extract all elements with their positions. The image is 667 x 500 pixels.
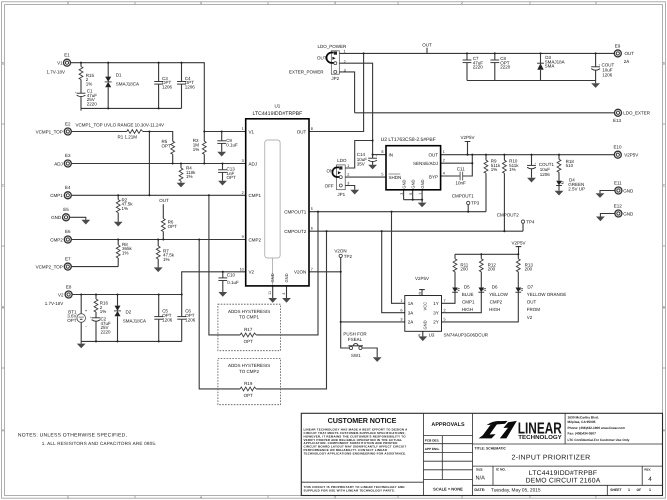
svg-text:2220: 2220 bbox=[101, 330, 112, 335]
svg-text:V2: V2 bbox=[527, 315, 533, 320]
svg-text:SW1: SW1 bbox=[351, 353, 361, 358]
svg-text:LTC4419IDD#TRPBF: LTC4419IDD#TRPBF bbox=[253, 111, 303, 117]
svg-text:C10: C10 bbox=[227, 272, 236, 277]
svg-text:LDO: LDO bbox=[337, 158, 347, 163]
svg-text:PUSH FOR: PUSH FOR bbox=[343, 331, 367, 336]
svg-text:8: 8 bbox=[419, 291, 421, 295]
svg-text:1%: 1% bbox=[86, 81, 93, 86]
svg-text:V2P5V: V2P5V bbox=[624, 152, 638, 157]
svg-text:4: 4 bbox=[200, 1, 202, 5]
svg-text:OPT: OPT bbox=[168, 224, 178, 229]
svg-text:200: 200 bbox=[525, 267, 533, 272]
svg-text:1.7V-18V: 1.7V-18V bbox=[47, 70, 66, 75]
svg-text:2A: 2A bbox=[624, 59, 630, 64]
svg-text:Milpitas, CA 95035: Milpitas, CA 95035 bbox=[568, 420, 596, 424]
svg-text:CMPOUT1: CMPOUT1 bbox=[452, 193, 474, 198]
svg-text:3: 3 bbox=[344, 69, 346, 73]
svg-text:TECHNOLOGY: TECHNOLOGY bbox=[518, 434, 562, 441]
svg-text:Phone: (408)432-1900 www.line: Phone: (408)432-1900 www.linear.com bbox=[568, 426, 626, 430]
svg-text:6: 6 bbox=[311, 227, 313, 231]
svg-text:11: 11 bbox=[268, 291, 272, 295]
svg-text:OUT: OUT bbox=[625, 51, 635, 56]
svg-text:2: 2 bbox=[347, 173, 349, 177]
svg-text:V1: V1 bbox=[57, 60, 63, 65]
svg-text:1: 1 bbox=[628, 488, 630, 492]
svg-text:OPT: OPT bbox=[162, 144, 172, 149]
svg-text:N/A: N/A bbox=[476, 475, 486, 482]
svg-text:E10: E10 bbox=[613, 144, 622, 149]
svg-text:5: 5 bbox=[381, 172, 383, 176]
svg-text:5: 5 bbox=[67, 1, 69, 5]
svg-text:Fax: (408)434-0507: Fax: (408)434-0507 bbox=[568, 431, 597, 435]
svg-text:OUT: OUT bbox=[429, 153, 439, 158]
svg-text:OUT: OUT bbox=[159, 198, 169, 203]
svg-text:0.1uF: 0.1uF bbox=[227, 280, 239, 285]
svg-text:2: 2 bbox=[344, 60, 346, 64]
svg-text:1: 1 bbox=[443, 150, 445, 154]
svg-text:3: 3 bbox=[242, 159, 244, 163]
svg-text:GND: GND bbox=[420, 179, 425, 188]
svg-text:CMP2: CMP2 bbox=[490, 299, 503, 304]
svg-text:IN: IN bbox=[389, 153, 394, 158]
svg-text:GND: GND bbox=[623, 211, 634, 216]
svg-text:TP3: TP3 bbox=[471, 201, 480, 206]
svg-text:CMP1: CMP1 bbox=[249, 193, 262, 198]
svg-text:5: 5 bbox=[444, 317, 446, 321]
svg-text:D7: D7 bbox=[527, 285, 533, 290]
svg-text:10nF: 10nF bbox=[456, 180, 467, 185]
svg-text:U2 LT1763CS8-2.5#PBF: U2 LT1763CS8-2.5#PBF bbox=[381, 137, 436, 143]
svg-text:3: 3 bbox=[347, 181, 349, 185]
svg-text:2A: 2A bbox=[408, 320, 414, 325]
svg-text:4: 4 bbox=[282, 293, 286, 295]
svg-text:2.5V UP: 2.5V UP bbox=[568, 187, 585, 192]
svg-text:+: + bbox=[598, 63, 600, 67]
svg-text:V2ON: V2ON bbox=[334, 249, 346, 254]
svg-text:V2P5V: V2P5V bbox=[460, 135, 474, 140]
svg-text:DEMO CIRCUIT 2160A: DEMO CIRCUIT 2160A bbox=[526, 477, 601, 484]
svg-text:7: 7 bbox=[419, 193, 423, 195]
svg-text:CMP2: CMP2 bbox=[50, 237, 63, 242]
svg-text:E8: E8 bbox=[66, 284, 72, 289]
svg-text:SENSE/ADJ: SENSE/ADJ bbox=[413, 161, 438, 166]
svg-text:3Y: 3Y bbox=[433, 311, 439, 316]
svg-text:TECHNOLOGY APPLICATIONS ENGINE: TECHNOLOGY APPLICATIONS ENGINEERING FOR … bbox=[304, 451, 407, 455]
svg-text:1.7V-18V: 1.7V-18V bbox=[45, 301, 64, 306]
svg-text:SIZE: SIZE bbox=[476, 468, 483, 472]
svg-text:+: + bbox=[534, 161, 536, 165]
svg-text:ADJ: ADJ bbox=[54, 161, 63, 166]
svg-text:CMP1: CMP1 bbox=[50, 193, 63, 198]
svg-text:1%: 1% bbox=[193, 147, 200, 152]
svg-text:2Y: 2Y bbox=[433, 320, 439, 325]
svg-text:4: 4 bbox=[443, 172, 445, 176]
svg-text:1%: 1% bbox=[163, 257, 170, 262]
svg-text:TITLE: SCHEMATIC: TITLE: SCHEMATIC bbox=[475, 446, 507, 450]
svg-text:+: + bbox=[75, 91, 77, 95]
svg-text:V2ON: V2ON bbox=[294, 270, 306, 275]
svg-text:35V: 35V bbox=[357, 162, 365, 167]
svg-text:2: 2 bbox=[461, 1, 463, 5]
svg-text:1: 1 bbox=[347, 164, 349, 168]
svg-text:SMAJ18CA: SMAJ18CA bbox=[123, 318, 146, 323]
svg-text:V1: V1 bbox=[249, 129, 255, 134]
svg-text:E12: E12 bbox=[614, 204, 623, 209]
svg-text:V2: V2 bbox=[249, 270, 255, 275]
svg-text:CUSTOMER NOTICE: CUSTOMER NOTICE bbox=[328, 416, 397, 425]
svg-text:+: + bbox=[376, 154, 378, 158]
svg-text:OUT: OUT bbox=[422, 42, 432, 47]
svg-text:OPT: OPT bbox=[244, 393, 254, 398]
svg-text:6: 6 bbox=[400, 308, 402, 312]
svg-text:E11: E11 bbox=[614, 180, 622, 185]
svg-text:SCALE = NONE: SCALE = NONE bbox=[433, 486, 463, 491]
svg-text:ON: ON bbox=[327, 168, 334, 173]
svg-text:4: 4 bbox=[418, 334, 422, 336]
svg-text:4: 4 bbox=[200, 495, 202, 499]
svg-text:3A: 3A bbox=[408, 311, 414, 316]
svg-text:CMPOUT2: CMPOUT2 bbox=[284, 229, 306, 234]
svg-text:OFF: OFF bbox=[325, 183, 334, 188]
svg-text:10: 10 bbox=[240, 267, 244, 271]
svg-text:2: 2 bbox=[242, 191, 244, 195]
svg-text:FROM: FROM bbox=[527, 307, 540, 312]
svg-text:200: 200 bbox=[460, 267, 468, 272]
svg-text:D5: D5 bbox=[464, 285, 470, 290]
svg-text:LDO_POWER: LDO_POWER bbox=[318, 44, 348, 49]
svg-text:SHEET: SHEET bbox=[610, 488, 622, 492]
svg-text:IC NO.: IC NO. bbox=[496, 468, 506, 472]
svg-text:OUT: OUT bbox=[297, 129, 307, 134]
svg-text:JP2: JP2 bbox=[331, 76, 339, 81]
svg-text:EXTER_POWER: EXTER_POWER bbox=[289, 69, 324, 74]
svg-text:APPROVALS: APPROVALS bbox=[431, 422, 465, 428]
svg-text:HIGH: HIGH bbox=[489, 307, 500, 312]
svg-text:E2: E2 bbox=[65, 121, 71, 126]
svg-text:8: 8 bbox=[381, 150, 383, 154]
svg-text:TO CMP2: TO CMP2 bbox=[239, 369, 259, 374]
svg-text:4: 4 bbox=[648, 476, 652, 483]
svg-text:CMP1: CMP1 bbox=[462, 299, 475, 304]
svg-text:3: 3 bbox=[334, 1, 336, 5]
svg-text:BLUE: BLUE bbox=[462, 292, 474, 297]
svg-text:8: 8 bbox=[311, 127, 313, 131]
svg-text:V2P5V: V2P5V bbox=[511, 240, 525, 245]
svg-text:E3: E3 bbox=[65, 153, 71, 158]
svg-text:Tuesday, May 05, 2015: Tuesday, May 05, 2015 bbox=[491, 488, 541, 494]
svg-text:HIGH: HIGH bbox=[462, 307, 473, 312]
svg-text:1: 1 bbox=[649, 488, 651, 492]
svg-text:1A: 1A bbox=[408, 301, 414, 306]
svg-text:1%: 1% bbox=[186, 174, 193, 179]
svg-text:OPT: OPT bbox=[244, 339, 254, 344]
svg-text:GND: GND bbox=[51, 215, 62, 220]
svg-text:PCB DES.: PCB DES. bbox=[425, 439, 440, 443]
svg-text:OPT: OPT bbox=[227, 175, 237, 180]
svg-text:1630 McCarthy Blvd.: 1630 McCarthy Blvd. bbox=[568, 415, 599, 419]
svg-text:1%: 1% bbox=[509, 167, 516, 172]
svg-text:V2P5V: V2P5V bbox=[415, 276, 429, 281]
svg-text:CMPOUT1: CMPOUT1 bbox=[284, 210, 306, 215]
svg-text:9: 9 bbox=[242, 235, 244, 239]
svg-text:U3: U3 bbox=[429, 332, 435, 337]
svg-text:D6: D6 bbox=[492, 285, 498, 290]
svg-text:1: 1 bbox=[400, 299, 402, 303]
svg-text:GND: GND bbox=[270, 273, 275, 282]
svg-text:GND: GND bbox=[411, 179, 416, 188]
svg-text:R17: R17 bbox=[244, 327, 253, 332]
svg-text:3: 3 bbox=[400, 317, 402, 321]
svg-text:7: 7 bbox=[444, 299, 446, 303]
svg-text:2220: 2220 bbox=[500, 65, 511, 70]
svg-text:D2: D2 bbox=[126, 309, 132, 314]
svg-text:1. ALL RESISITORS AND CAPACITO: 1. ALL RESISITORS AND CAPACITORS ARE 080… bbox=[42, 441, 157, 446]
svg-text:2: 2 bbox=[443, 159, 445, 163]
svg-text:1206: 1206 bbox=[185, 84, 196, 89]
svg-text:APP ENG.: APP ENG. bbox=[425, 447, 440, 451]
svg-text:1%: 1% bbox=[491, 167, 498, 172]
svg-text:2-INPUT PRIORITIZER: 2-INPUT PRIORITIZER bbox=[511, 454, 590, 461]
svg-text:GND: GND bbox=[284, 273, 289, 282]
svg-text:VCMP1_TOP: VCMP1_TOP bbox=[36, 130, 63, 135]
svg-text:ADDS HYSTERESIS: ADDS HYSTERESIS bbox=[228, 363, 270, 368]
svg-text:2220: 2220 bbox=[87, 102, 98, 107]
svg-text:LDO_EXTER: LDO_EXTER bbox=[623, 111, 651, 116]
svg-text:NOTES: UNLESS OTHERWISE SPECIF: NOTES: UNLESS OTHERWISE SPECIFIED, bbox=[18, 432, 127, 438]
svg-text:R1 1.21M: R1 1.21M bbox=[118, 134, 138, 139]
svg-text:OUT: OUT bbox=[527, 299, 537, 304]
svg-text:YELLOW ORANGE: YELLOW ORANGE bbox=[527, 292, 567, 297]
svg-text:R19: R19 bbox=[244, 381, 253, 386]
svg-text:1: 1 bbox=[595, 1, 597, 5]
svg-text:1%: 1% bbox=[122, 251, 129, 256]
svg-text:1206: 1206 bbox=[162, 317, 173, 322]
svg-text:1Y: 1Y bbox=[433, 301, 439, 306]
svg-text:GND: GND bbox=[423, 320, 428, 329]
svg-text:DATE:: DATE: bbox=[474, 488, 485, 492]
svg-text:SMAJ18CA: SMAJ18CA bbox=[116, 81, 139, 86]
svg-text:1206: 1206 bbox=[162, 84, 173, 89]
svg-text:2: 2 bbox=[444, 308, 446, 312]
svg-text:6: 6 bbox=[409, 193, 413, 195]
svg-text:E1: E1 bbox=[64, 53, 70, 58]
svg-text:TP2: TP2 bbox=[344, 254, 353, 259]
svg-text:1206: 1206 bbox=[540, 172, 551, 177]
svg-text:+: + bbox=[90, 315, 92, 319]
svg-text:E9: E9 bbox=[615, 44, 621, 49]
svg-text:E7: E7 bbox=[65, 256, 71, 261]
svg-text:E13: E13 bbox=[613, 118, 622, 123]
svg-text:SN74AUP3G06DCUR: SN74AUP3G06DCUR bbox=[444, 332, 489, 337]
svg-text:1%: 1% bbox=[100, 309, 107, 314]
svg-text:5: 5 bbox=[311, 207, 313, 211]
svg-text:VCMP1_TOP UVLO RANGE 10.30V-11: VCMP1_TOP UVLO RANGE 10.30V-11.24V bbox=[76, 123, 165, 128]
svg-text:1: 1 bbox=[344, 50, 346, 54]
svg-text:JP1: JP1 bbox=[337, 192, 345, 197]
svg-text:1206: 1206 bbox=[602, 72, 613, 77]
svg-text:LTC Confidential-For Customer: LTC Confidential-For Customer Use Only bbox=[568, 438, 630, 442]
svg-text:200: 200 bbox=[488, 267, 496, 272]
svg-text:E6: E6 bbox=[65, 229, 71, 234]
svg-text:7: 7 bbox=[311, 267, 313, 271]
svg-text:YELLOW: YELLOW bbox=[489, 292, 509, 297]
svg-text:REV.: REV. bbox=[644, 467, 651, 471]
svg-text:OPT: OPT bbox=[67, 318, 77, 323]
svg-text:TO CMP1: TO CMP1 bbox=[239, 315, 259, 320]
svg-text:TP4: TP4 bbox=[526, 219, 535, 224]
svg-text:U1: U1 bbox=[275, 104, 281, 109]
svg-text:SHDN: SHDN bbox=[389, 175, 402, 180]
svg-text:5: 5 bbox=[67, 495, 69, 499]
svg-text:CMPOUT2: CMPOUT2 bbox=[497, 212, 519, 217]
svg-text:V2: V2 bbox=[58, 292, 64, 297]
svg-text:0.1uF: 0.1uF bbox=[226, 143, 238, 148]
svg-text:1%: 1% bbox=[122, 206, 129, 211]
svg-text:GND: GND bbox=[402, 179, 407, 188]
svg-text:2220: 2220 bbox=[473, 65, 484, 70]
svg-text:D1: D1 bbox=[116, 73, 122, 78]
svg-text:E4: E4 bbox=[65, 185, 71, 190]
svg-text:SUPPLIED FOR USE WITH LINEAR T: SUPPLIED FOR USE WITH LINEAR TECHNOLOGY … bbox=[304, 488, 396, 492]
svg-text:SMA: SMA bbox=[545, 64, 555, 69]
svg-text:BYP: BYP bbox=[429, 174, 438, 179]
svg-text:OF: OF bbox=[637, 488, 642, 492]
svg-text:GND: GND bbox=[623, 188, 634, 193]
svg-text:E5: E5 bbox=[63, 207, 69, 212]
svg-text:ADJ: ADJ bbox=[249, 161, 258, 166]
svg-text:3: 3 bbox=[400, 193, 404, 195]
svg-text:1206: 1206 bbox=[185, 317, 196, 322]
svg-text:CMP2: CMP2 bbox=[249, 237, 262, 242]
svg-text:VCC: VCC bbox=[423, 302, 428, 311]
svg-text:OUT: OUT bbox=[317, 56, 327, 61]
svg-text:C11: C11 bbox=[457, 167, 465, 172]
svg-text:ADDS HYSTERESIS: ADDS HYSTERESIS bbox=[228, 309, 270, 314]
svg-text:FSEAL: FSEAL bbox=[348, 337, 363, 342]
svg-text:510: 510 bbox=[566, 163, 574, 168]
svg-text:VCMP2_TOP: VCMP2_TOP bbox=[36, 265, 63, 270]
svg-text:LTC4419IDD#TRPBF: LTC4419IDD#TRPBF bbox=[529, 470, 597, 477]
svg-text:1: 1 bbox=[242, 127, 244, 131]
